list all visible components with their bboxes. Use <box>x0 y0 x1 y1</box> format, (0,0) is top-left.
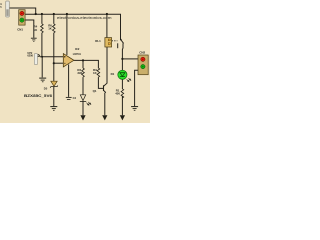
svg-text:Q1: Q1 <box>93 89 97 93</box>
svg-text:450: 450 <box>115 92 120 96</box>
svg-text:390: 390 <box>77 71 82 75</box>
svg-text:electronica-electronics.com: electronica-electronics.com <box>57 15 112 20</box>
svg-text:CN2: CN2 <box>139 51 145 55</box>
svg-text:D5: D5 <box>44 87 48 91</box>
svg-text:LM741: LM741 <box>73 52 82 56</box>
svg-text:RL1: RL1 <box>95 39 101 43</box>
svg-text:D1: D1 <box>111 72 115 76</box>
svg-text:BZX85C_5V6: BZX85C_5V6 <box>24 94 52 98</box>
svg-text:6206: 6206 <box>27 55 33 58</box>
svg-text:IC2: IC2 <box>75 47 80 51</box>
svg-text:CN1: CN1 <box>17 28 23 32</box>
svg-text:C4: C4 <box>73 96 77 100</box>
